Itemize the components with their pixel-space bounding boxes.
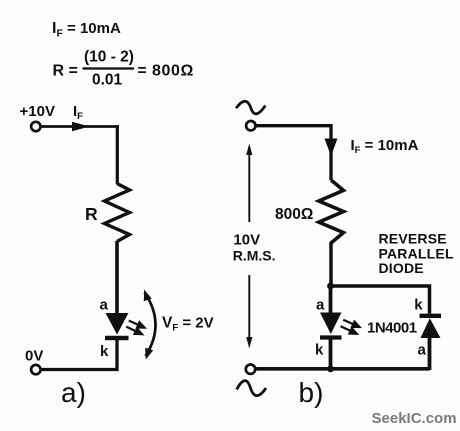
wire resistor to junction — [329, 242, 333, 286]
dimension arrow up — [246, 144, 252, 223]
junction node top — [327, 283, 334, 290]
svg-text:PARALLEL: PARALLEL — [379, 245, 454, 261]
VF measurement arc — [144, 290, 156, 360]
svg-text:=: = — [138, 63, 147, 80]
wire bottom b — [256, 367, 430, 371]
svg-text:IF = 10mA: IF = 10mA — [351, 137, 419, 156]
AC source tilde bottom — [237, 381, 266, 396]
resistor R — [105, 184, 130, 242]
LED D1 — [105, 313, 129, 338]
svg-text:800Ω: 800Ω — [275, 206, 313, 223]
current arrow IF b — [325, 139, 338, 157]
svg-text:DIODE: DIODE — [379, 260, 424, 276]
svg-text:0V: 0V — [25, 348, 43, 365]
label REVERSE PARALLEL DIODE — [379, 231, 454, 277]
svg-text:10V: 10V — [233, 232, 260, 249]
terminal b top — [246, 121, 255, 130]
terminal +10V — [31, 122, 40, 131]
svg-text:IF = 10mA: IF = 10mA — [52, 20, 121, 40]
AC source tilde top — [236, 101, 265, 114]
svg-text:R =: R = — [53, 63, 78, 80]
wire parallel top — [331, 286, 430, 314]
wire top b — [257, 126, 332, 180]
wire LED b to bottom — [329, 337, 333, 370]
wire 1N4001 to bottom — [428, 337, 432, 370]
junction node bottom — [327, 365, 334, 372]
formula R = (10-2)/0.01 = 800 ohm — [53, 49, 194, 89]
svg-text:k: k — [414, 297, 423, 314]
svg-text:SeekIC.com: SeekIC.com — [372, 410, 457, 427]
LED D2 — [320, 313, 342, 338]
svg-text:k: k — [315, 342, 324, 359]
svg-text:a: a — [316, 297, 325, 314]
svg-text:k: k — [100, 343, 109, 360]
current arrow IF — [72, 122, 90, 131]
svg-text:(10 - 2): (10 - 2) — [84, 49, 134, 66]
terminal 0V — [31, 365, 40, 374]
svg-text:VF = 2V: VF = 2V — [162, 315, 214, 334]
wire resistor to LED — [115, 241, 119, 314]
svg-text:REVERSE: REVERSE — [379, 231, 447, 247]
svg-text:a: a — [100, 297, 109, 314]
resistor 800 ohm — [319, 180, 344, 243]
svg-text:R: R — [85, 204, 98, 224]
wire LED to 0V — [42, 337, 118, 370]
terminal b bottom — [246, 365, 255, 374]
LED D2 light arrows — [341, 320, 360, 334]
svg-text:R.M.S.: R.M.S. — [233, 248, 276, 264]
svg-text:a: a — [418, 342, 427, 359]
wire junction to LED b — [329, 286, 333, 313]
svg-text:a): a) — [61, 377, 86, 408]
svg-text:800Ω: 800Ω — [152, 63, 194, 80]
svg-text:1N4001: 1N4001 — [367, 320, 417, 337]
wire top a — [41, 125, 119, 128]
svg-text:0.01: 0.01 — [92, 72, 123, 89]
svg-text:+10V: +10V — [20, 103, 55, 120]
diode 1N4001 — [420, 316, 442, 338]
svg-text:b): b) — [299, 377, 324, 408]
dimension arrow down — [246, 275, 252, 349]
LED D1 light arrows — [126, 321, 144, 335]
